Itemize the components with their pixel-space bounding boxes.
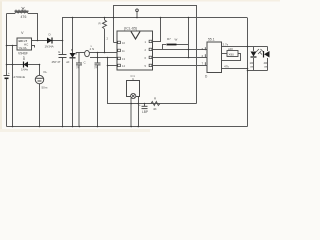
wire IC pin3 row: [90, 57, 117, 59]
svg-text:us: us: [264, 65, 268, 69]
wire 555 pin row2: [222, 53, 228, 55]
speaker box LS1: [127, 77, 140, 99]
wire top rail tap: [136, 12, 138, 18]
svg-text:s20: s20: [228, 47, 233, 51]
svg-text:R7: R7: [167, 37, 171, 41]
svg-text:7F: 7F: [76, 66, 80, 70]
wire antenna coil left lead: [7, 13, 16, 15]
wire descender to bottom: [108, 58, 132, 104]
svg-text:7F: 7F: [94, 66, 98, 70]
svg-text:3.7s: 3.7s: [223, 43, 229, 47]
svg-text:+: +: [139, 103, 141, 107]
wire IC pin1 riser: [113, 6, 115, 43]
wire left diode row: [7, 64, 40, 66]
svg-text:W: W: [175, 38, 178, 42]
resistor R4 box: [227, 47, 238, 57]
capacitor C6: [94, 63, 101, 70]
wire box right stub: [31, 46, 35, 48]
svg-text:X90: X90: [229, 53, 235, 57]
wire C5 branch: [78, 53, 80, 63]
diode D1: [45, 33, 54, 49]
wire speaker legs: [137, 97, 139, 127]
wire upper loop: [114, 6, 197, 18]
wire antenna coil right lead: [28, 14, 38, 41]
wire 555 out row: [222, 46, 268, 48]
wire bottom rail: [7, 126, 248, 128]
svg-text:-2700mE: -2700mE: [13, 75, 26, 79]
wire 555 bottom row: [222, 68, 248, 70]
wire IC right pin2 to 555: [153, 49, 208, 51]
wire resistor bump: [163, 45, 167, 50]
svg-text:50m: 50m: [42, 86, 48, 90]
transformer coil L1: [15, 10, 29, 14]
wire buzzer branch: [39, 65, 41, 76]
LED D5: [260, 49, 270, 69]
svg-text:KL: KL: [44, 70, 48, 74]
wire rail to bump: [188, 18, 190, 58]
wire left vertical battery branch: [6, 14, 8, 76]
resistor R2 thick bar: [167, 37, 178, 45]
microphone MIC1: [85, 45, 95, 57]
wire zener branch: [72, 18, 74, 54]
wire led1 branch: [253, 47, 255, 52]
resistor R3 bottom zigzag: [151, 97, 160, 112]
IC U2 main: [117, 27, 153, 71]
svg-text:YE RL: YE RL: [19, 46, 28, 50]
svg-text:+: +: [8, 71, 10, 75]
wire cap tap bottom: [144, 104, 146, 107]
wire IC right pin1: [153, 18, 161, 42]
wire led bottom join: [248, 70, 268, 72]
buzzer BZ1: [35, 70, 48, 90]
wire top rail: [62, 17, 247, 19]
zener D3: [66, 48, 76, 64]
wire box left pin: [7, 45, 18, 47]
wire IC right pin3 to 555: [153, 57, 208, 59]
wire 555 pin row3 loop: [222, 54, 241, 61]
capacitor C7 bottom: [139, 103, 148, 114]
wire mic row: [76, 52, 117, 54]
svg-text:47k: 47k: [224, 65, 229, 69]
resistor R1 vertical zigzag: [99, 20, 109, 41]
svg-text:LBP: LBP: [142, 110, 148, 114]
wire diode row: [31, 40, 63, 42]
capacitor C5: [76, 61, 87, 70]
svg-text:4T6: 4T6: [21, 15, 27, 19]
wire IC pin4 row: [108, 65, 118, 67]
wire IC right pin4 to 555: [153, 65, 208, 67]
LED D4: [250, 49, 262, 69]
pin stubs left: [118, 41, 121, 43]
wire right vertical: [247, 18, 249, 127]
svg-text:(ICL-65): (ICL-65): [124, 27, 137, 31]
wire C6 branch: [97, 53, 99, 63]
wire second left vertical: [12, 46, 14, 127]
wire led2 branch: [267, 47, 269, 52]
capacitor C4: [52, 50, 67, 64]
wire bottom resistor row: [131, 103, 197, 105]
receiver module U1: [17, 38, 32, 50]
svg-text:55.1: 55.1: [208, 38, 215, 42]
wire long vertical to bottom row: [196, 18, 198, 104]
wire R1 branch: [104, 18, 106, 21]
wire speaker circle stub: [130, 98, 132, 127]
antenna mast: [22, 7, 25, 11]
capacitor C2 battery-left: [4, 71, 26, 79]
svg-text:1N4s: 1N4s: [21, 68, 29, 72]
svg-text:4K: 4K: [153, 107, 157, 111]
svg-text:1N34A: 1N34A: [45, 45, 54, 49]
svg-text:uF: uF: [66, 60, 70, 64]
wire C4 branch: [62, 18, 64, 55]
svg-text:45P 4T: 45P 4T: [52, 60, 61, 64]
svg-text:us: us: [250, 65, 254, 69]
svg-text:B: B: [71, 48, 73, 52]
pin stubs right: [149, 40, 152, 42]
diode D2: [21, 57, 29, 72]
timer U3 555: [202, 38, 222, 79]
top rail tap node: [136, 9, 139, 12]
